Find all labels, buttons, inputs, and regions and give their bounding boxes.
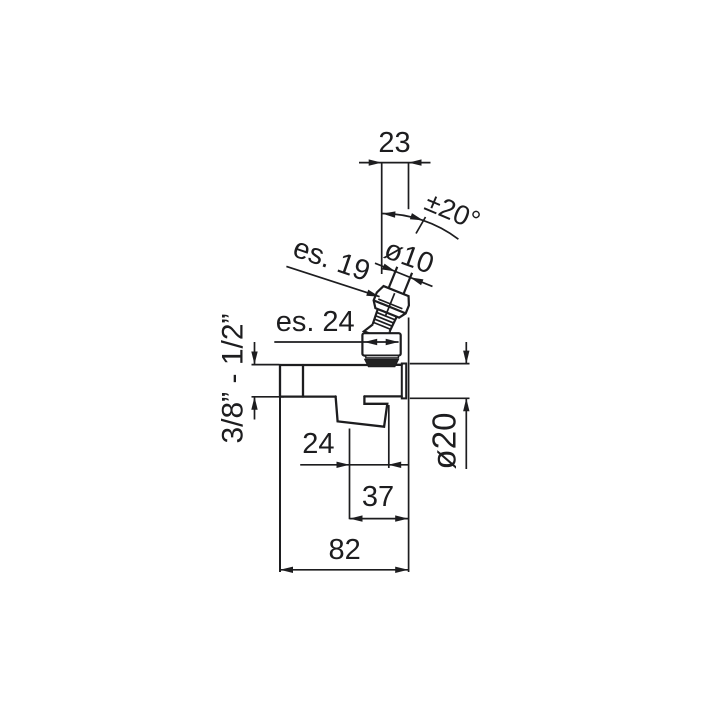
arc arrow at 19deg [410,213,424,223]
thread section sides [372,309,379,324]
23 ext left vertical [381,163,383,274]
3/8 arrow bottom [251,397,257,410]
svg-text:±20°: ±20° [421,186,485,237]
ext line left [349,429,351,520]
82 arrow left [280,567,293,573]
82 arrow right [395,567,408,573]
es.24 leader line [274,341,398,343]
24 arrow right [388,462,401,468]
valve body left edge [279,365,281,397]
arc tick [416,217,426,234]
ø10 arrow left [382,264,396,275]
dimension 24 [300,405,408,519]
svg-text:es. 24: es. 24 [276,306,355,338]
es.24 arrow right [386,339,399,345]
es.24 arrow left [364,339,377,345]
es.24 nut [362,333,400,355]
arc arrow at start [382,210,395,217]
dimension ø20 [410,342,470,469]
right vertical lower segment [408,318,410,573]
svg-text:24: 24 [302,428,334,460]
valve body top line right [393,364,402,366]
svg-text:23: 23 [378,127,410,159]
ext lines [410,363,470,365]
svg-text:37: 37 [362,481,394,513]
ext lines [252,364,280,366]
end cap ring [402,364,406,399]
nut mid line [374,300,406,313]
tilted swivel assembly [350,259,435,349]
svg-text:ø10: ø10 [380,233,438,280]
24 arrow left [337,462,350,468]
svg-text:3/8” - 1/2”: 3/8” - 1/2” [217,313,250,443]
axis cross horizontal [378,299,402,309]
ø10 dim line [375,263,432,286]
dimension 23 [280,163,431,572]
ext line right [388,405,390,468]
dimension 82 [280,569,408,571]
ø10 arrow right [409,274,423,285]
skirt [364,322,394,342]
ø20 arrow bottom [463,398,469,411]
washer under nut [366,356,399,358]
23 arrow left [369,159,382,165]
angle arc ±20 [382,214,459,240]
dimension 37 [350,518,409,520]
es.19 leader [286,266,379,296]
37 arrow right [395,515,408,521]
dimension 3/8 - 1/2 [252,342,285,420]
3/8 arrow top [251,352,257,365]
valve body top line left [280,364,370,366]
37 arrow left [350,515,363,521]
23 ext right vertical [408,163,410,210]
axis cross vertical [385,293,394,316]
inlet divider [302,365,304,397]
dark collar [365,359,399,367]
ø20 arrow top [463,351,469,364]
hex nut es.19 [371,285,412,320]
left body ext down to 82 [279,397,281,572]
svg-text:82: 82 [328,534,360,566]
svg-text:ø20: ø20 [426,413,463,470]
es.19 leader arrow [366,290,380,300]
valve body bottom line left [280,395,336,397]
thread lines [373,312,395,329]
tube ø10 sides [389,267,398,288]
svg-text:es. 19: es. 19 [289,232,374,288]
outlet spout [336,396,388,426]
valve body bottom line right [364,395,401,397]
23 arrow right [409,159,422,165]
